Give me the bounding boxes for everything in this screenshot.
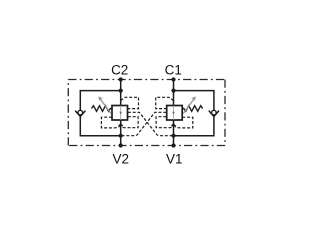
- svg-text:V2: V2: [113, 152, 130, 167]
- svg-text:V1: V1: [166, 152, 183, 167]
- svg-text:C2: C2: [111, 63, 128, 78]
- svg-text:C1: C1: [165, 63, 182, 78]
